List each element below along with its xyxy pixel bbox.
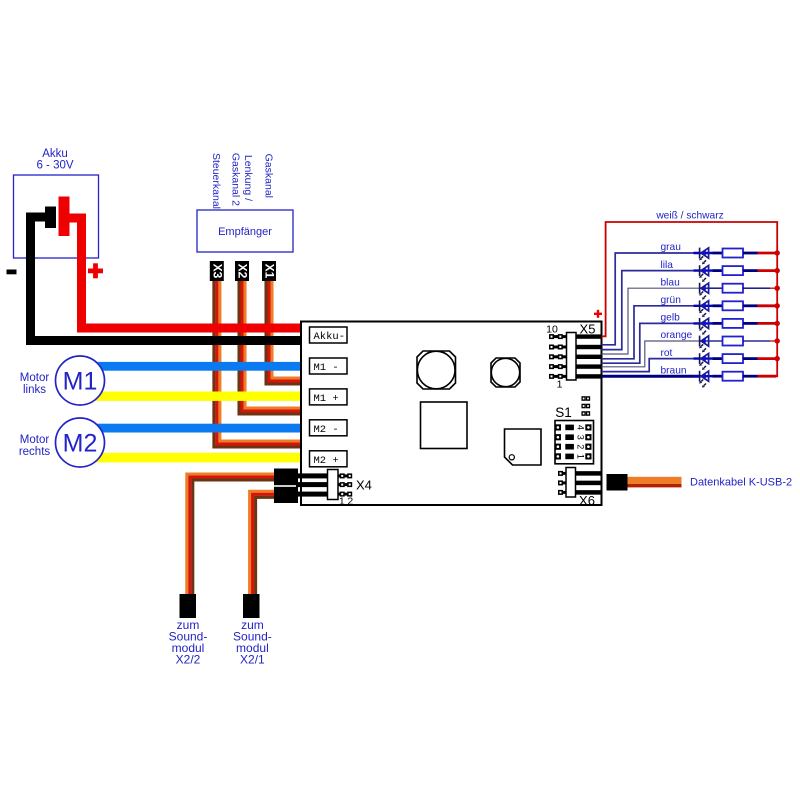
label Motor links <box>20 372 50 396</box>
svg-text:X2: X2 <box>236 264 250 279</box>
wire red positive horizontal run <box>77 324 301 333</box>
svg-text:weiß / schwarz: weiß / schwarz <box>655 211 723 222</box>
wire black negative horizontal run <box>26 336 301 345</box>
label Motor rechts <box>19 434 51 458</box>
junction dot grau <box>775 250 780 255</box>
terminal label M2 + <box>310 451 348 467</box>
svg-text:Datenkabel K-USB-2: Datenkabel K-USB-2 <box>690 477 792 489</box>
wire LED grun to resistor <box>694 305 713 307</box>
svg-text:6 - 30V: 6 - 30V <box>36 160 73 172</box>
wire red LED supply bus <box>602 222 778 376</box>
resistor blau <box>723 284 744 293</box>
svg-text:X2/2: X2/2 <box>176 653 201 667</box>
terminal label M1 + <box>310 389 348 405</box>
connector plug sound module X2/1 <box>243 594 260 618</box>
wire servo cable from X1 to board <box>266 278 301 384</box>
plus label at X5 <box>594 310 602 318</box>
junction dot lila <box>775 268 780 273</box>
IC U2 (square with pin-1 dot) <box>505 429 542 465</box>
wire LED lila to resistor <box>694 269 713 271</box>
wire LED orange to resistor <box>699 340 723 342</box>
svg-text:1: 1 <box>339 496 345 508</box>
svg-text:4: 4 <box>576 425 586 430</box>
LED braun <box>699 371 708 388</box>
svg-text:M1 +: M1 + <box>314 393 339 405</box>
battery label Akku 6-30V <box>36 148 73 172</box>
connector X1 (receiver) <box>262 261 277 281</box>
connector block X4 upper <box>274 469 298 486</box>
svg-text:M2 -: M2 - <box>314 424 339 436</box>
connector X6 <box>558 468 602 498</box>
junction dot grun <box>775 303 780 308</box>
wire resistor orange to bus <box>743 340 770 342</box>
DIP switch S1 <box>555 421 594 464</box>
resistor grun <box>723 301 744 310</box>
connector block X4 lower <box>274 487 298 503</box>
svg-text:Empfänger: Empfänger <box>218 226 272 238</box>
svg-text:S1: S1 <box>555 405 572 420</box>
svg-text:M1: M1 <box>63 368 98 396</box>
wire resistor grau to bus <box>743 252 758 255</box>
wire resistor rot to bus <box>743 357 758 360</box>
wire to sound module X2/2 <box>187 474 280 594</box>
connector X2 (receiver) <box>235 261 250 281</box>
svg-text:X1: X1 <box>263 264 277 279</box>
svg-text:orange: orange <box>661 330 693 341</box>
svg-text:3: 3 <box>576 435 586 440</box>
wire LED blau to resistor <box>699 287 723 289</box>
wire resistor lila to bus <box>743 269 758 272</box>
plus label <box>88 263 103 278</box>
minus label <box>7 270 17 275</box>
svg-text:X2/1: X2/1 <box>240 653 265 667</box>
LED blau <box>699 283 708 300</box>
wire X5 to LED rot <box>602 359 700 372</box>
connector X4 <box>296 470 352 500</box>
capacitor C1 (large) <box>417 351 456 389</box>
LED grau <box>699 248 708 265</box>
svg-text:lila: lila <box>661 260 674 271</box>
wire servo cable from X3 to board <box>214 278 301 447</box>
LED rot <box>699 353 708 370</box>
wire X5 to LED braun <box>602 375 700 378</box>
wire LED rot to resistor <box>694 357 713 359</box>
junction dot rot <box>775 356 780 361</box>
svg-text:1: 1 <box>576 454 586 459</box>
connector X3 (receiver) <box>210 261 225 281</box>
terminal label M2 - <box>310 420 348 436</box>
svg-text:Lenkung /: Lenkung / <box>242 155 254 201</box>
svg-text:Gaskanal: Gaskanal <box>263 154 275 198</box>
controller board outline <box>301 322 602 506</box>
terminal label M1 - <box>310 358 348 374</box>
svg-text:X3: X3 <box>210 264 224 279</box>
wire M2 blue <box>78 424 301 433</box>
wire resistor gelb to bus <box>743 322 758 325</box>
svg-text:X4: X4 <box>356 478 372 493</box>
svg-text:1: 1 <box>557 378 563 390</box>
wire resistor braun to bus <box>743 375 758 378</box>
wire X5 to LED grau <box>602 253 700 345</box>
battery negative terminal bar <box>45 207 56 229</box>
LED orange <box>699 336 708 353</box>
svg-text:grau: grau <box>661 242 681 253</box>
label zum Soundmodul X2/2 <box>169 618 208 667</box>
receiver box Empfaenger <box>197 210 293 252</box>
motor M1 <box>56 356 105 405</box>
wire X5 to LED grun <box>602 306 700 359</box>
junction dot orange <box>775 338 780 343</box>
svg-text:Gaskanal 2: Gaskanal 2 <box>230 153 242 206</box>
resistor braun <box>723 372 744 381</box>
svg-text:M1 -: M1 - <box>314 362 339 374</box>
svg-text:links: links <box>23 384 46 396</box>
wire battery positive (red) to board <box>66 218 301 328</box>
wire to sound module X2/1 <box>250 491 280 594</box>
resistor grau <box>723 249 744 258</box>
jumper pads above S1 <box>581 396 590 416</box>
LED gelb <box>699 318 708 335</box>
svg-text:X5: X5 <box>580 322 596 337</box>
junction dot blau <box>775 286 780 291</box>
resistor lila <box>723 266 744 275</box>
svg-text:Motor: Motor <box>20 434 50 446</box>
svg-text:10: 10 <box>546 324 558 336</box>
connector plug Datenkabel <box>607 474 628 491</box>
svg-text:Akku-: Akku- <box>314 331 346 343</box>
svg-text:braun: braun <box>661 365 687 376</box>
wire M2 yellow <box>78 453 301 463</box>
label zum Soundmodul X2/1 <box>233 618 272 667</box>
wire battery negative (black) to board <box>31 217 302 341</box>
wire M1 blue <box>78 362 301 371</box>
wire X5 to LED lila <box>602 271 700 350</box>
LED lila <box>699 265 708 282</box>
connector X5 <box>549 333 602 381</box>
svg-text:2: 2 <box>576 444 586 449</box>
wire LED gelb to resistor <box>694 322 713 324</box>
svg-text:X6: X6 <box>579 493 595 508</box>
wire LED grau to resistor <box>694 252 713 254</box>
IC U1 (large square) <box>421 402 468 449</box>
wire resistor grun to bus <box>743 304 758 307</box>
svg-text:M2: M2 <box>63 430 98 458</box>
svg-text:gelb: gelb <box>661 313 681 324</box>
resistor orange <box>723 337 744 346</box>
wire X5 to LED blau <box>602 288 700 354</box>
resistor rot <box>723 354 744 363</box>
wire X5 to LED gelb <box>602 323 700 363</box>
terminal label Akku- <box>310 327 348 343</box>
cable Datenkabel K-USB-2 <box>628 477 682 484</box>
svg-text:M2 +: M2 + <box>314 455 339 467</box>
svg-text:grün: grün <box>661 295 681 306</box>
LED grun <box>699 300 708 317</box>
wire LED braun to resistor <box>694 375 713 377</box>
resistor gelb <box>723 319 744 328</box>
svg-text:rot: rot <box>661 348 673 359</box>
svg-text:Akku: Akku <box>42 148 68 160</box>
wire resistor blau to bus <box>743 287 770 289</box>
battery positive terminal bar <box>59 197 70 237</box>
svg-text:Motor: Motor <box>20 372 50 384</box>
junction dot gelb <box>775 321 780 326</box>
wire X5 to LED orange <box>602 341 700 367</box>
capacitor C2 (small) <box>491 358 520 387</box>
connector plug sound module X2/2 <box>180 594 197 618</box>
svg-text:Steuerkanal: Steuerkanal <box>210 153 222 209</box>
svg-text:2: 2 <box>347 496 353 508</box>
svg-text:blau: blau <box>661 277 680 288</box>
motor M2 <box>56 418 105 467</box>
wire M1 yellow <box>78 392 301 401</box>
battery box Akku <box>14 175 99 258</box>
svg-text:rechts: rechts <box>19 446 51 458</box>
wire servo cable from X2 to board <box>239 278 301 414</box>
